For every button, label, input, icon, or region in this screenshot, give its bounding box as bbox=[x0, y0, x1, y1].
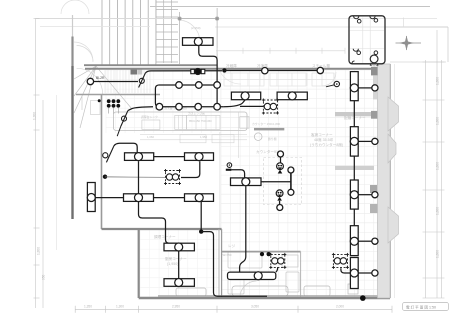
svg-text:カウンター910: カウンター910 bbox=[256, 149, 280, 154]
wire FL13-FL14 bbox=[353, 101, 355, 127]
fluorescent fixture FL17 bbox=[350, 258, 358, 289]
wire FL8 down bbox=[200, 202, 202, 232]
downlight D18 bbox=[372, 270, 378, 276]
recessed fixture RD4 bbox=[332, 253, 349, 269]
switch S3 bbox=[103, 153, 108, 158]
svg-text:1,800: 1,800 bbox=[436, 117, 440, 125]
switch S1 stroke bbox=[139, 73, 146, 88]
fluorescent fixture FL5 bbox=[185, 153, 214, 161]
junction dot J4 bbox=[199, 229, 203, 233]
svg-text:1,300: 1,300 bbox=[33, 112, 37, 120]
fluorescent fixture FL10 bbox=[164, 279, 194, 287]
downlight D11 bbox=[288, 189, 294, 195]
recessed fixture RD1 bbox=[262, 99, 279, 115]
fluorescent fixture FL14 bbox=[350, 127, 358, 156]
fluorescent fixture FL15 bbox=[350, 180, 358, 209]
downlight D7 bbox=[176, 103, 183, 110]
downlight D10 bbox=[288, 167, 294, 173]
wire FL14-FL15 bbox=[353, 156, 355, 180]
wire FL7-FL8 bbox=[154, 197, 185, 199]
downlight D8 bbox=[195, 103, 202, 110]
fluorescent fixture FL13 bbox=[350, 72, 358, 101]
wire FL15-FL16 bbox=[353, 209, 355, 225]
svg-text:1,800: 1,800 bbox=[436, 162, 440, 170]
wire FL11 to riser bbox=[261, 181, 291, 183]
fluorescent fixture FL11 bbox=[231, 178, 262, 186]
svg-text:電 灯 平 面 図 1:50: 電 灯 平 面 図 1:50 bbox=[406, 304, 436, 309]
switch S1 bbox=[139, 78, 144, 83]
svg-text:配膳コーナー: 配膳コーナー bbox=[344, 115, 366, 120]
svg-text:1,800: 1,800 bbox=[436, 77, 440, 85]
wire SP2 to D13 bbox=[279, 201, 281, 205]
wire S2 tail bbox=[117, 126, 121, 136]
junction dot J7 bbox=[360, 295, 366, 301]
svg-text:レジ: レジ bbox=[228, 244, 236, 248]
downlight D4 bbox=[196, 82, 203, 89]
wire FL4-FL5 bbox=[154, 156, 185, 158]
svg-text:冷蔵庫: 冷蔵庫 bbox=[226, 63, 237, 68]
svg-text:1,800: 1,800 bbox=[436, 250, 440, 258]
wire row A to row B bend bbox=[155, 85, 159, 107]
toilet unit dark sill bbox=[370, 62, 379, 66]
svg-text:3,050: 3,050 bbox=[251, 305, 259, 309]
wire FL1 down to row A bbox=[199, 45, 217, 81]
svg-text:(1,950): (1,950) bbox=[167, 262, 178, 266]
downlight D17 bbox=[372, 238, 378, 244]
svg-text:1,950: 1,950 bbox=[200, 135, 207, 139]
speaker SP2 bbox=[276, 190, 283, 201]
svg-text:1,800: 1,800 bbox=[37, 247, 41, 255]
wire row B bbox=[159, 106, 223, 108]
walls bbox=[73, 15, 391, 298]
junction dot J5 bbox=[260, 252, 264, 256]
svg-text:48席 35.5坪: 48席 35.5坪 bbox=[314, 137, 334, 142]
svg-text:2,000: 2,000 bbox=[336, 305, 344, 309]
downlight D5 bbox=[214, 82, 221, 89]
svg-text:850×450 750×450: 850×450 750×450 bbox=[189, 119, 212, 123]
ceiling rose R1 bbox=[191, 68, 205, 74]
switch S3 stroke bbox=[106, 146, 113, 162]
wire S3 to FL4 bbox=[114, 143, 137, 152]
wire FL5 to RD2 bbox=[181, 161, 200, 177]
downlight D15 bbox=[372, 138, 378, 144]
wire to RD1 bbox=[240, 105, 263, 107]
wire FL7 to kitchen FL9 bbox=[139, 202, 179, 247]
wire J1 to downlights bbox=[224, 70, 323, 72]
recessed fixture RD2 bbox=[164, 169, 181, 185]
wire FL15 to D16 bbox=[358, 194, 372, 196]
wire FL13 to D14 bbox=[358, 87, 372, 89]
svg-text:950: 950 bbox=[42, 274, 46, 280]
downlight BL2R bbox=[87, 78, 93, 84]
fluorescent fixture FL9 bbox=[164, 243, 194, 251]
svg-text:厨房コーナー: 厨房コーナー bbox=[165, 256, 187, 261]
wire FL11 to FL12 bbox=[240, 186, 246, 272]
wire J4 to pantry bbox=[201, 232, 267, 297]
wire FL6-FL7 bbox=[95, 197, 123, 199]
downlight D9 bbox=[214, 103, 221, 110]
wire RD3 to FL12 bbox=[276, 267, 278, 272]
fluorescent fixture FL6 bbox=[87, 183, 95, 212]
wire S4 to FL11 bbox=[231, 170, 244, 178]
wire row B to FL2 bbox=[223, 100, 245, 107]
fluorescent fixture FL4 bbox=[125, 153, 154, 161]
ceiling grid bbox=[221, 70, 390, 297]
fluorescent fixture FL16 bbox=[350, 226, 358, 256]
svg-text:カウンター 250×1,890: カウンター 250×1,890 bbox=[252, 122, 281, 126]
vertical riser wire bbox=[290, 173, 292, 189]
svg-text:1,060: 1,060 bbox=[147, 135, 154, 139]
wire FL14 to D15 bbox=[358, 140, 372, 142]
wire J3 to RD2 (thin) bbox=[105, 176, 167, 178]
toilet unit interior bbox=[350, 18, 384, 64]
svg-text:調理台シンク: 調理台シンク bbox=[141, 115, 158, 119]
downlight D6 bbox=[156, 103, 163, 110]
north symbol bbox=[396, 36, 422, 51]
switch S2 bbox=[122, 116, 127, 121]
downlight D13 bbox=[277, 205, 283, 211]
wire row A bbox=[159, 84, 214, 86]
svg-text:(うちカウンター8席): (うちカウンター8席) bbox=[310, 142, 343, 147]
svg-text:(2,150): (2,150) bbox=[191, 26, 201, 30]
fluorescent fixture FL1 bbox=[183, 38, 214, 46]
wire from BL2R to switch S1 bbox=[94, 81, 138, 83]
wire FL16 to D17 bbox=[358, 240, 372, 242]
wire RD4 to FL17 bbox=[341, 268, 350, 273]
wire D5 to D9 bbox=[216, 88, 218, 103]
svg-text:飾り棚: 飾り棚 bbox=[268, 137, 277, 141]
wire FL17 to D18 bbox=[358, 272, 372, 274]
junction dot J6 bbox=[267, 252, 271, 256]
toilet unit outline bbox=[349, 16, 385, 64]
outlet block 3x2 dots bbox=[107, 99, 120, 107]
downlight D14 bbox=[372, 85, 378, 91]
svg-text:ガスレンジ台: ガスレンジ台 bbox=[188, 111, 205, 115]
sensor S4 bbox=[226, 163, 232, 171]
wire FL9-FL10 bbox=[178, 251, 180, 279]
outlet O1 bbox=[326, 81, 339, 87]
speaker SP1 bbox=[277, 163, 284, 174]
junction dot J3 bbox=[103, 175, 107, 179]
wire row B to switch S2 bbox=[128, 107, 153, 111]
toilet unit fittings bbox=[352, 16, 378, 63]
toilet bowl bbox=[370, 55, 378, 63]
downlight D3 bbox=[176, 82, 183, 89]
downlight D1 bbox=[262, 68, 268, 74]
downlight D2 bbox=[317, 67, 323, 73]
junction dot J2 bbox=[98, 99, 101, 102]
svg-text:BL2R: BL2R bbox=[96, 76, 105, 80]
fluorescent fixture FL3 bbox=[277, 92, 307, 100]
fluorescent fixture FL7 bbox=[124, 194, 154, 202]
fluorescent fixture FL2 bbox=[231, 92, 260, 100]
switch S2 stroke bbox=[121, 111, 128, 127]
svg-text:W=750: W=750 bbox=[223, 253, 232, 257]
svg-text:1,800: 1,800 bbox=[436, 207, 440, 215]
svg-text:客席コーナー: 客席コーナー bbox=[311, 132, 333, 137]
svg-text:2,950: 2,950 bbox=[172, 305, 180, 309]
downlight D12 bbox=[278, 151, 284, 157]
fluorescent fixture FL8 bbox=[185, 194, 214, 202]
wire FL4 to FL6 bbox=[138, 161, 140, 193]
downlight D16 bbox=[372, 192, 378, 198]
wire D12 to speaker SP1 bbox=[280, 157, 282, 163]
recessed fixture RD3 bbox=[269, 253, 286, 269]
junction dot J1 bbox=[222, 68, 226, 72]
svg-text:1,300: 1,300 bbox=[116, 305, 124, 309]
architectural background bbox=[102, 0, 156, 65]
fluorescent fixture FL12 bbox=[228, 272, 276, 280]
svg-text:1,350: 1,350 bbox=[84, 305, 92, 309]
title box bbox=[403, 303, 449, 311]
wire S1 to ceiling rose bbox=[145, 71, 222, 73]
